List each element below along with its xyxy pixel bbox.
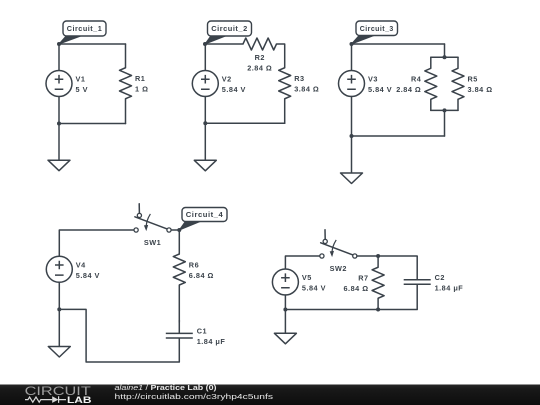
- wire right-top C1: [125, 44, 127, 68]
- svg-text:R4: R4: [411, 75, 422, 84]
- wire source-top C4: [59, 230, 134, 256]
- ground C5: [274, 310, 296, 344]
- wire source-top C2: [204, 44, 206, 71]
- wire source-top C3: [351, 44, 353, 71]
- wire R4 bottom stub: [430, 99, 432, 110]
- svg-text:V4: V4: [76, 261, 86, 270]
- resistor R2: [243, 38, 277, 73]
- node bottom C5: [283, 308, 287, 312]
- svg-text:R5: R5: [468, 75, 478, 84]
- svg-text:2.84 Ω: 2.84 Ω: [396, 85, 421, 94]
- wire bottom C4: [59, 309, 179, 362]
- svg-text:http://circuitlab.com/c3ryhp4c: http://circuitlab.com/c3ryhp4c5unfs: [115, 392, 274, 401]
- node parallel-bottom C3: [443, 108, 447, 112]
- wire source-top C1: [58, 44, 60, 71]
- voltage source V4: [46, 256, 100, 282]
- capacitor C2: [404, 256, 464, 310]
- voltage source V5: [272, 269, 326, 295]
- wire R4 top stub: [430, 57, 432, 68]
- wire source-bottom C3: [351, 97, 353, 137]
- svg-text:alaine1 / Practice Lab (0): alaine1 / Practice Lab (0): [115, 383, 218, 392]
- wire source-bottom C2: [204, 97, 206, 124]
- wire R5 top stub: [457, 57, 459, 68]
- node top C5: [376, 254, 380, 258]
- wire parallel bottom rail C3: [431, 109, 458, 111]
- svg-text:R2: R2: [255, 53, 265, 62]
- svg-text:V5: V5: [302, 273, 312, 282]
- wire top-left C2: [205, 43, 243, 45]
- ground C2: [194, 123, 216, 171]
- wire R6 to C1: [178, 285, 180, 322]
- switch SW1: [134, 204, 171, 247]
- wire top to C2: [378, 255, 417, 257]
- wire bottom C1: [59, 123, 126, 125]
- ground C1: [48, 124, 70, 171]
- wire bottom C5: [285, 309, 417, 311]
- wire bottom C2: [205, 122, 284, 124]
- voltage source V3: [339, 71, 393, 97]
- svg-text:5.84 V: 5.84 V: [302, 284, 326, 293]
- wire top-right C2: [277, 44, 285, 68]
- svg-text:LAB: LAB: [67, 395, 92, 405]
- svg-text:R7: R7: [358, 274, 368, 283]
- wire node down R7: [377, 256, 379, 267]
- wire source-bottom C5: [284, 295, 286, 310]
- wire bottom C3: [352, 135, 445, 137]
- svg-text:6.84 Ω: 6.84 Ω: [189, 271, 214, 280]
- svg-text:R6: R6: [189, 260, 199, 269]
- node bottom C1: [57, 122, 61, 126]
- resistor R4: [396, 68, 437, 99]
- svg-text:SW1: SW1: [144, 238, 161, 247]
- svg-text:V1: V1: [76, 75, 86, 84]
- wire R7 bottom: [377, 298, 379, 309]
- voltage source V1: [46, 71, 88, 97]
- svg-text:2.84 Ω: 2.84 Ω: [247, 64, 272, 73]
- wire top C3: [352, 43, 445, 45]
- wire down to parallel C3: [444, 44, 446, 57]
- svg-text:Circuit_4: Circuit_4: [186, 210, 224, 219]
- svg-text:5.84 V: 5.84 V: [222, 85, 246, 94]
- wire right-bottom C2: [284, 99, 286, 124]
- resistor R7: [344, 267, 385, 298]
- svg-text:C2: C2: [435, 273, 445, 282]
- svg-text:Circuit_3: Circuit_3: [360, 24, 394, 33]
- resistor R1: [120, 68, 149, 99]
- svg-text:3.84 Ω: 3.84 Ω: [294, 85, 319, 94]
- wire switch to node C5: [357, 255, 378, 257]
- wire right-bottom C1: [125, 99, 127, 124]
- wire switch to node C4: [171, 229, 179, 231]
- wire parallel to bottom C3: [444, 110, 446, 136]
- svg-text:C1: C1: [197, 327, 207, 336]
- capacitor C1: [166, 320, 226, 362]
- svg-text:R1: R1: [135, 74, 145, 83]
- wire source-bottom C4: [58, 282, 60, 309]
- node bottom C3: [350, 134, 354, 138]
- resistor R5: [452, 68, 493, 99]
- svg-text:Circuit_1: Circuit_1: [67, 24, 103, 33]
- svg-text:5.84 V: 5.84 V: [76, 271, 100, 280]
- net label Circuit_4: [177, 208, 227, 233]
- switch SW2: [320, 230, 357, 273]
- svg-text:V2: V2: [222, 75, 232, 84]
- svg-text:3.84 Ω: 3.84 Ω: [468, 85, 493, 94]
- wire source-bottom C1: [58, 97, 60, 124]
- resistor R6: [173, 254, 214, 285]
- footer title: alaine1 / Practice Lab (0): [115, 383, 218, 392]
- wire top C1: [59, 43, 126, 45]
- wire R5 bottom stub: [457, 99, 459, 110]
- svg-text:5 V: 5 V: [76, 85, 88, 94]
- footer url: [115, 392, 274, 401]
- node R7-bottom C5: [376, 308, 380, 312]
- svg-text:R3: R3: [294, 74, 304, 83]
- net label Circuit_2: [203, 21, 252, 46]
- svg-text:1.84 μF: 1.84 μF: [435, 283, 464, 292]
- wire parallel top rail C3: [431, 56, 458, 58]
- voltage source V2: [192, 71, 246, 97]
- svg-text:1 Ω: 1 Ω: [135, 85, 148, 94]
- node bottom C4: [57, 307, 61, 311]
- wire node down C4: [178, 230, 180, 254]
- svg-text:SW2: SW2: [330, 264, 347, 273]
- net label Circuit_1: [57, 21, 106, 46]
- svg-text:1.84 μF: 1.84 μF: [197, 337, 226, 346]
- net label Circuit_3: [350, 21, 398, 46]
- CircuitLab logo text LAB: [67, 395, 92, 405]
- svg-text:V3: V3: [368, 75, 378, 84]
- ground C4: [48, 309, 70, 357]
- resistor R3: [279, 68, 320, 99]
- svg-text:Circuit_2: Circuit_2: [211, 24, 248, 33]
- node bottom C2: [203, 121, 207, 125]
- svg-text:5.84 V: 5.84 V: [368, 85, 392, 94]
- CircuitLab logo text CIRCUIT: [25, 385, 91, 398]
- CircuitLab logo schematic line (resistor + diode): [25, 396, 66, 403]
- footer bar: [0, 385, 540, 405]
- node parallel-top C3: [443, 55, 447, 59]
- wire source-top C5: [285, 256, 319, 269]
- svg-text:6.84 Ω: 6.84 Ω: [344, 284, 369, 293]
- ground C3: [341, 136, 363, 184]
